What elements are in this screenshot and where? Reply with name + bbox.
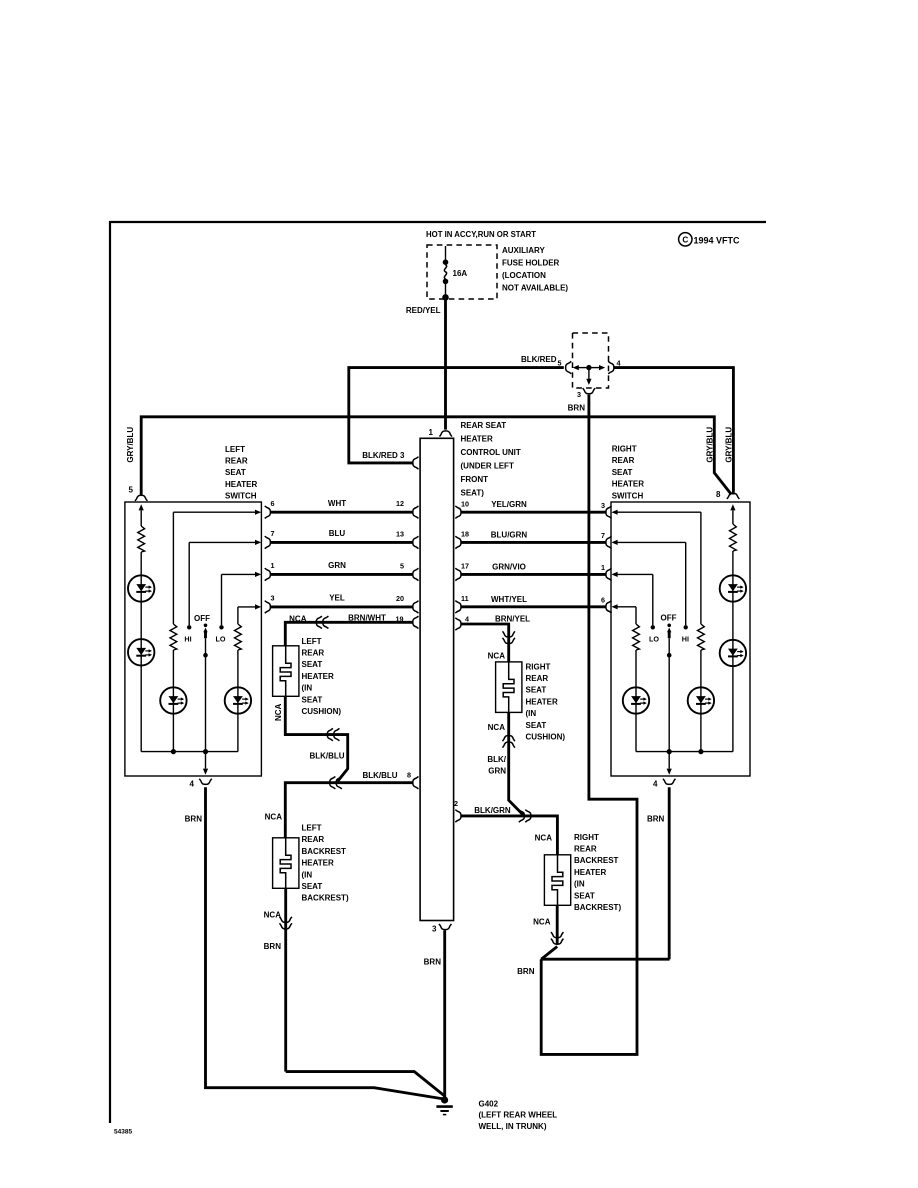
svg-text:NCA: NCA xyxy=(488,651,506,660)
svg-text:REAR: REAR xyxy=(526,674,549,683)
inline connector below right backrest heater xyxy=(551,932,563,938)
junction dot OFF pole xyxy=(203,749,208,754)
svg-text:19: 19 xyxy=(396,614,404,623)
connector cup right switch pin 1 xyxy=(606,568,612,580)
LED D2 left switch xyxy=(128,639,154,665)
svg-text:HEATER: HEATER xyxy=(225,480,258,489)
svg-text:3: 3 xyxy=(601,501,605,510)
svg-text:6: 6 xyxy=(271,499,275,508)
HI contact dot right xyxy=(684,625,688,629)
svg-text:BRN: BRN xyxy=(647,814,665,823)
connector pin 4 cup at right switch bottom xyxy=(663,779,675,785)
svg-text:BACKREST): BACKREST) xyxy=(574,903,621,912)
svg-text:NCA: NCA xyxy=(274,703,283,721)
LO contact dot xyxy=(219,625,223,629)
svg-text:1: 1 xyxy=(601,563,605,572)
svg-text:GRY/BLU: GRY/BLU xyxy=(725,427,734,463)
wire BLK/BLU from control unit pin 8 to left rear backrest heater xyxy=(285,783,412,838)
connector pin 3 cup bottom xyxy=(583,388,595,394)
svg-text:HEATER: HEATER xyxy=(302,672,335,681)
svg-text:REAR: REAR xyxy=(574,845,597,854)
arrow down to pin 3 xyxy=(588,368,590,380)
svg-text:SWITCH: SWITCH xyxy=(225,492,257,501)
svg-text:8: 8 xyxy=(407,771,411,780)
svg-text:BACKREST: BACKREST xyxy=(302,847,347,856)
wire from right backrest heater down xyxy=(556,905,559,944)
connector cup control unit pin 5 xyxy=(413,568,419,580)
svg-text:4: 4 xyxy=(190,780,195,789)
connector cup left switch pin 1 xyxy=(265,568,271,580)
svg-text:6: 6 xyxy=(601,596,605,605)
svg-text:5: 5 xyxy=(558,359,562,368)
svg-text:BRN: BRN xyxy=(185,815,203,824)
wire GRN from left switch pin 1 to control unit pin 5 xyxy=(270,573,412,576)
svg-text:NOT AVAILABLE): NOT AVAILABLE) xyxy=(502,284,568,293)
wire BRN right backrest diagonal xyxy=(541,947,557,960)
svg-text:BLK/RED: BLK/RED xyxy=(521,355,557,364)
svg-text:GRN: GRN xyxy=(488,767,506,776)
copyright notice 1994 VFTC xyxy=(679,233,740,246)
svg-text:BLK/BLU: BLK/BLU xyxy=(362,771,397,780)
wire RED/YEL from fuse to control unit pin 1 xyxy=(444,297,447,429)
LED D6 right switch xyxy=(720,640,746,666)
LO contact dot right xyxy=(651,625,655,629)
svg-text:18: 18 xyxy=(461,530,469,539)
connector cup control unit pin 17 xyxy=(455,568,461,580)
svg-text:OFF: OFF xyxy=(194,614,210,623)
svg-text:SEAT: SEAT xyxy=(302,660,323,669)
svg-text:AUXILIARY: AUXILIARY xyxy=(502,246,545,255)
svg-text:BRN: BRN xyxy=(264,942,282,951)
svg-text:SEAT: SEAT xyxy=(526,686,547,695)
svg-text:13: 13 xyxy=(396,529,404,538)
svg-text:CUSHION): CUSHION) xyxy=(526,733,566,742)
svg-text:SWITCH: SWITCH xyxy=(612,491,644,500)
wire BLK/GRN from control unit pin 2 to right rear backrest heater xyxy=(461,816,558,855)
wire BLU/GRN from control unit pin 18 to right switch pin 7 xyxy=(461,541,606,544)
wire BLK/RED from control unit pin 3 up and right to connector pin 5 xyxy=(349,368,564,463)
control unit box U1 REAR SEAT HEATER CONTROL UNIT xyxy=(420,438,454,920)
wire row 7 to HI contact right xyxy=(616,541,686,543)
connector pin 1 at control unit top xyxy=(440,431,452,437)
svg-text:WELL, IN TRUNK): WELL, IN TRUNK) xyxy=(479,1122,547,1131)
resistor R4 in pin8 column xyxy=(730,524,737,551)
wire BRN from left switch pin 4 to ground xyxy=(206,787,445,1099)
heater element H1 LEFT REAR SEAT HEATER xyxy=(273,646,299,697)
svg-text:7: 7 xyxy=(271,529,275,538)
svg-text:BRN: BRN xyxy=(517,967,535,976)
wire row 3 in right switch xyxy=(616,511,701,513)
arrow down to pin 4 right switch xyxy=(668,752,670,769)
inline connector dashed box xyxy=(573,333,609,388)
svg-text:NCA: NCA xyxy=(533,918,551,927)
wire WHT from left switch pin 6 to control unit pin 12 xyxy=(270,511,412,514)
svg-text:4: 4 xyxy=(617,359,621,368)
svg-text:GRY/BLU: GRY/BLU xyxy=(705,427,714,463)
inline connector below left cushion heater xyxy=(327,728,333,740)
wire GRY/BLU from left switch pin 5 across to right switch pin 8 xyxy=(141,417,731,496)
connector cup right switch pin 7 xyxy=(606,536,612,548)
switch blade OFF left xyxy=(204,624,208,628)
svg-text:REAR SEAT: REAR SEAT xyxy=(461,421,507,430)
svg-text:(LOCATION: (LOCATION xyxy=(502,271,546,280)
svg-text:SEAT: SEAT xyxy=(612,468,633,477)
svg-text:SEAT: SEAT xyxy=(302,882,323,891)
svg-text:OFF: OFF xyxy=(661,614,677,623)
svg-text:CONTROL UNIT: CONTROL UNIT xyxy=(461,448,521,457)
wire BRN from control unit pin 3 to ground xyxy=(443,930,446,1097)
LED D5 right switch xyxy=(720,575,746,601)
svg-text:BRN/YEL: BRN/YEL xyxy=(495,614,530,623)
inline connector on BLK/GRN row xyxy=(519,810,525,822)
svg-text:FUSE HOLDER: FUSE HOLDER xyxy=(502,259,560,268)
svg-text:54385: 54385 xyxy=(114,1129,132,1136)
svg-text:3: 3 xyxy=(577,390,581,399)
heater element H2 LEFT REAR BACKREST HEATER xyxy=(273,838,299,889)
junction dot OFF pole right xyxy=(667,749,672,754)
junction dot in connector xyxy=(586,365,591,370)
svg-text:4: 4 xyxy=(653,780,658,789)
heater element H3 RIGHT REAR SEAT HEATER xyxy=(496,662,522,713)
svg-text:LEFT: LEFT xyxy=(302,824,322,833)
svg-text:1: 1 xyxy=(429,428,434,437)
connector pin 8 cup at right switch top xyxy=(727,493,739,499)
switch blade OFF right xyxy=(667,624,671,628)
wire YEL/GRN from control unit pin 10 to right switch pin 3 xyxy=(461,511,606,514)
arrow into pin 4 xyxy=(589,367,600,369)
svg-text:LEFT: LEFT xyxy=(302,637,322,646)
heater element H4 RIGHT REAR BACKREST HEATER xyxy=(544,855,570,906)
svg-text:REAR: REAR xyxy=(225,457,248,466)
wire GRN/VIO from control unit pin 17 to right switch pin 1 xyxy=(461,573,606,576)
svg-text:HEATER: HEATER xyxy=(612,480,645,489)
connector cup control unit pin 2 xyxy=(455,810,461,822)
svg-text:C: C xyxy=(682,236,688,245)
connector pin 3 cup at control unit left xyxy=(413,457,419,469)
connector pin 4 cup at left switch bottom xyxy=(199,779,211,785)
wire row 7 to HI contact xyxy=(189,541,256,543)
svg-text:NCA: NCA xyxy=(535,834,553,843)
arrow into right switch from pin 8 xyxy=(732,510,734,524)
svg-text:1994 VFTC: 1994 VFTC xyxy=(694,235,741,245)
wire pin8 column in right switch xyxy=(732,551,734,752)
right rear seat heater switch box S2 xyxy=(611,502,750,776)
connector cup control unit pin 8 xyxy=(413,777,419,789)
connector cup control unit pin 18 xyxy=(455,536,461,548)
svg-text:WHT: WHT xyxy=(328,499,346,508)
svg-text:REAR: REAR xyxy=(302,649,325,658)
svg-text:(IN: (IN xyxy=(526,709,537,718)
svg-text:LO: LO xyxy=(216,635,226,644)
HI contact dot xyxy=(187,625,191,629)
inline connector on BLK/BLU row xyxy=(330,777,336,789)
wire row 1 to LO contact xyxy=(222,573,257,575)
connector cup right switch pin 6 xyxy=(606,601,612,613)
connector pin 3 cup at control unit bottom xyxy=(439,924,451,930)
inline connector below left backrest heater xyxy=(280,917,292,923)
wire OFF pole to junction xyxy=(205,655,207,751)
connector cup right switch pin 3 xyxy=(606,506,612,518)
auxiliary fuse holder dashed box xyxy=(427,245,497,299)
junction bus line in left switch xyxy=(141,751,238,753)
svg-text:SEAT): SEAT) xyxy=(461,489,485,498)
svg-text:FRONT: FRONT xyxy=(461,475,489,484)
left rear seat heater switch box S1 xyxy=(125,502,262,776)
svg-text:NCA: NCA xyxy=(265,813,283,822)
connector pin 5 cup xyxy=(566,361,572,373)
svg-text:5: 5 xyxy=(400,561,404,570)
svg-text:16A: 16A xyxy=(453,269,468,278)
svg-text:5: 5 xyxy=(129,486,134,495)
svg-text:11: 11 xyxy=(461,594,469,603)
svg-text:(IN: (IN xyxy=(574,880,585,889)
svg-text:1: 1 xyxy=(271,561,275,570)
junction dot at fuse box bottom xyxy=(442,294,449,301)
svg-text:BACKREST): BACKREST) xyxy=(302,894,349,903)
connector cup control unit pin 13 xyxy=(413,536,419,548)
svg-text:RIGHT: RIGHT xyxy=(612,445,637,454)
wire from left backrest heater to BRN xyxy=(284,888,287,1071)
connector cup left switch pin 7 xyxy=(265,536,271,548)
svg-text:GRN/VIO: GRN/VIO xyxy=(492,562,526,571)
svg-text:LEFT: LEFT xyxy=(225,445,245,454)
svg-text:3: 3 xyxy=(432,925,437,934)
svg-text:LO: LO xyxy=(649,635,659,644)
svg-text:NCA: NCA xyxy=(488,723,506,732)
svg-text:HI: HI xyxy=(682,635,689,644)
inline connector on BRN/WHT row xyxy=(316,616,322,628)
svg-text:12: 12 xyxy=(396,499,404,508)
wire BRN/WHT from control unit pin 19 to left rear seat heater xyxy=(285,622,412,646)
connector pin 4 cup xyxy=(608,361,614,373)
svg-text:BACKREST: BACKREST xyxy=(574,856,619,865)
arrow into left switch from pin 5 xyxy=(140,510,142,520)
resistor R1 in pin5 column xyxy=(138,526,145,552)
arrow into pin 5 xyxy=(578,367,589,369)
svg-text:GRY/BLU: GRY/BLU xyxy=(126,427,135,463)
svg-text:BRN/WHT: BRN/WHT xyxy=(348,613,386,622)
junction dot column A xyxy=(171,749,176,754)
svg-text:NCA: NCA xyxy=(289,614,307,623)
svg-text:BLK/BLU: BLK/BLU xyxy=(309,751,344,760)
svg-text:BRN: BRN xyxy=(424,958,442,967)
arrow down to pin 4 left switch xyxy=(205,752,207,769)
svg-text:YEL/GRN: YEL/GRN xyxy=(491,500,527,509)
svg-text:(IN: (IN xyxy=(302,684,313,693)
svg-text:G402: G402 xyxy=(479,1100,499,1109)
wire BRN from connector pin 3 down, jog right, down to bottom junction xyxy=(541,395,637,1055)
wire row 1 to LO contact right xyxy=(616,573,653,575)
svg-text:HOT IN ACCY,RUN OR START: HOT IN ACCY,RUN OR START xyxy=(426,230,536,239)
wire BRN/YEL from control unit pin 4 to right rear seat heater xyxy=(461,624,509,662)
svg-text:BRN: BRN xyxy=(568,404,586,413)
wire BLU from left switch pin 7 to control unit pin 13 xyxy=(270,541,412,544)
fuse 16A xyxy=(443,246,468,297)
svg-text:SEAT: SEAT xyxy=(526,721,547,730)
junction bus line in right switch xyxy=(636,751,733,753)
svg-text:GRN: GRN xyxy=(328,561,346,570)
connector cup control unit pin 12 xyxy=(413,506,419,518)
svg-text:REAR: REAR xyxy=(612,456,635,465)
connector pin 5 cup at left switch top xyxy=(135,495,147,501)
svg-text:17: 17 xyxy=(461,562,469,571)
svg-text:NCA: NCA xyxy=(264,911,282,920)
svg-text:HEATER: HEATER xyxy=(574,868,607,877)
svg-text:HEATER: HEATER xyxy=(461,435,494,444)
wire NCA from left cushion heater down and right xyxy=(285,696,347,781)
wire pin5 column in left switch xyxy=(140,520,142,526)
LED D1 left switch xyxy=(128,575,154,601)
svg-text:HI: HI xyxy=(184,635,191,644)
wire YEL from left switch pin 3 to control unit pin 20 xyxy=(270,605,412,608)
wire row 3 column E with resistor R3 and LED D4 xyxy=(238,606,256,608)
svg-text:BLU: BLU xyxy=(329,529,346,538)
svg-text:10: 10 xyxy=(461,499,469,508)
connector cup control unit pin 20 xyxy=(413,601,419,613)
connector cup control unit pin 10 xyxy=(455,506,461,518)
wire column A left switch with resistor R2 and LED D3 xyxy=(172,512,174,624)
connector cup left switch pin 3 xyxy=(265,601,271,613)
svg-text:SEAT: SEAT xyxy=(574,891,595,900)
svg-text:SEAT: SEAT xyxy=(225,468,246,477)
svg-text:WHT/YEL: WHT/YEL xyxy=(491,595,527,604)
inline connector below right cushion heater xyxy=(503,735,515,741)
wire WHT/YEL from control unit pin 11 to right switch pin 6 xyxy=(461,605,606,608)
svg-text:HEATER: HEATER xyxy=(526,697,559,706)
inline connector above right cushion heater xyxy=(503,631,515,637)
svg-text:8: 8 xyxy=(716,490,721,499)
svg-text:7: 7 xyxy=(601,531,605,540)
ground G402 xyxy=(436,1096,452,1114)
svg-text:2: 2 xyxy=(454,799,458,808)
svg-text:BLK/: BLK/ xyxy=(487,755,506,764)
wire row 6 in left switch xyxy=(173,511,256,513)
wire BLK/GRN from right cushion heater down xyxy=(509,712,524,816)
svg-text:(UNDER LEFT: (UNDER LEFT xyxy=(461,462,514,471)
connector cup control unit pin 4 xyxy=(455,618,461,630)
svg-text:20: 20 xyxy=(396,594,404,603)
wire row 6 column B right switch with resistor R6 and LED D8 xyxy=(616,606,636,608)
wire OFF pole to junction right xyxy=(668,655,670,751)
svg-text:(IN: (IN xyxy=(302,870,313,879)
svg-text:RED/YEL: RED/YEL xyxy=(406,306,441,315)
wire BRN from right switch pin 4 down to junction xyxy=(668,787,671,959)
junction dot column A right xyxy=(698,749,703,754)
svg-text:4: 4 xyxy=(465,615,469,624)
connector cup left switch pin 6 xyxy=(265,506,271,518)
svg-text:SEAT: SEAT xyxy=(302,695,323,704)
wire junction horizontal at bottom right xyxy=(541,958,669,961)
connector cup control unit pin 19 xyxy=(413,616,419,628)
wire BRN left backrest to ground xyxy=(286,1072,444,1096)
svg-text:RIGHT: RIGHT xyxy=(574,833,599,842)
svg-text:RIGHT: RIGHT xyxy=(526,662,551,671)
svg-text:CUSHION): CUSHION) xyxy=(302,707,342,716)
svg-text:BLK/RED 3: BLK/RED 3 xyxy=(362,451,405,460)
wire GRY/BLU from connector pin 4 to right switch pin 8 xyxy=(614,368,734,495)
svg-text:BLK/GRN: BLK/GRN xyxy=(474,806,511,815)
svg-text:YEL: YEL xyxy=(329,594,345,603)
svg-text:(LEFT REAR WHEEL: (LEFT REAR WHEEL xyxy=(479,1111,558,1120)
svg-text:REAR: REAR xyxy=(302,835,325,844)
svg-text:HEATER: HEATER xyxy=(302,859,335,868)
connector cup control unit pin 11 xyxy=(455,601,461,613)
svg-text:BLU/GRN: BLU/GRN xyxy=(491,530,528,539)
wire column A right switch with resistor R5 and LED D7 xyxy=(700,512,702,624)
svg-text:3: 3 xyxy=(271,594,275,603)
